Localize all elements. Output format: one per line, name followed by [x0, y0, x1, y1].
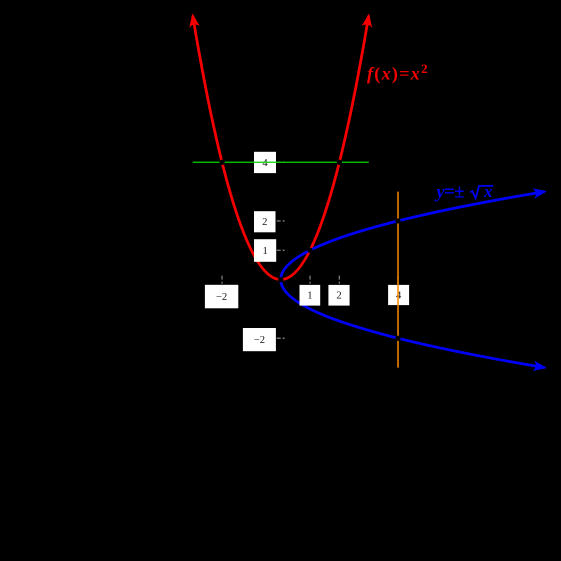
svg-text:2: 2: [336, 291, 341, 302]
svg-text:4: 4: [396, 290, 402, 301]
svg-text:−2: −2: [254, 335, 265, 346]
svg-text:4: 4: [262, 158, 268, 169]
svg-text:x: x: [483, 182, 493, 201]
svg-text:±: ±: [454, 181, 464, 202]
svg-text:1: 1: [262, 246, 267, 257]
svg-text:−2: −2: [216, 292, 227, 303]
svg-text:f(x)=x2: f(x)=x2: [367, 61, 428, 84]
svg-text:1: 1: [307, 291, 312, 302]
svg-text:2: 2: [262, 217, 267, 228]
